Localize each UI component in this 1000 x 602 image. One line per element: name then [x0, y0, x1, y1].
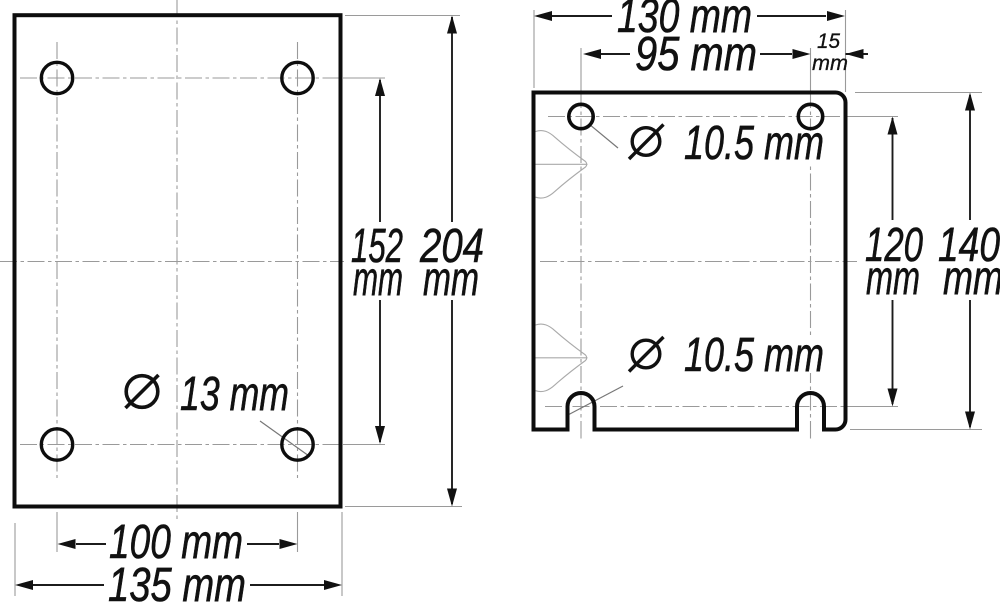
100mm right extension line	[297, 512, 299, 552]
svg-text:13 mm: 13 mm	[180, 368, 289, 421]
140mm dimension line segments	[969, 95, 971, 220]
135mm right extension line	[341, 512, 343, 596]
svg-text:mm: mm	[353, 253, 403, 306]
204mm bottom arrowhead	[447, 489, 457, 507]
svg-text:10.5 mm: 10.5 mm	[684, 329, 824, 382]
95mm left arrowhead	[583, 49, 601, 59]
left slot centerline extension below right plate	[580, 430, 582, 439]
95mm dimension line segments	[601, 53, 630, 55]
left plate hole bottom-left	[41, 429, 72, 460]
svg-text:mm: mm	[943, 252, 1000, 305]
204mm top arrowhead	[447, 16, 457, 34]
204mm bottom extension line	[345, 506, 462, 508]
100mm right arrowhead	[280, 539, 298, 549]
152mm dimension line segments	[379, 80, 381, 222]
right plate top holes horizontal centerline	[548, 116, 846, 118]
svg-text:95 mm: 95 mm	[635, 28, 757, 81]
left plate mid vertical centerline	[176, 0, 178, 519]
135mm left arrowhead	[15, 580, 33, 590]
120mm bottom extension	[850, 406, 898, 408]
152mm top extension	[345, 77, 385, 79]
130mm left arrowhead	[534, 11, 552, 21]
100mm dimension line segments	[76, 543, 106, 545]
left plate mid horizontal centerline	[0, 261, 390, 263]
left plate hole bottom-right	[282, 429, 313, 460]
135mm right arrowhead	[324, 580, 342, 590]
120mm bottom arrowhead	[888, 389, 898, 407]
svg-text:mm: mm	[423, 253, 479, 306]
white mask behind 152/204 text block	[344, 220, 504, 300]
leader line to bottom 10.5mm slot	[566, 386, 623, 416]
15mm dimension tail line	[846, 53, 869, 55]
leader line to top 10.5mm hole	[589, 124, 618, 148]
left plate right holes vertical centerline	[297, 42, 299, 478]
left hole centerline extension above right plate	[580, 48, 582, 91]
diameter symbol for bottom 10.5mm	[629, 337, 664, 372]
left plate top holes horizontal centerline	[20, 77, 345, 79]
right plate hole top-right	[798, 104, 822, 128]
white mask behind bottom 10.5mm text mm part	[760, 335, 834, 373]
extension portions of centerlines (solid thin)	[345, 48, 898, 445]
svg-text:10.5 mm: 10.5 mm	[684, 117, 824, 170]
centerline group	[0, 0, 857, 519]
140mm top arrowhead	[965, 93, 975, 111]
svg-text:135 mm: 135 mm	[108, 559, 246, 602]
white mask behind top 10.5mm text mm part	[760, 131, 834, 163]
right plate hole top-left	[569, 104, 593, 128]
left plate bottom holes horizontal centerline	[20, 444, 345, 446]
15mm left-pointing arrowhead	[846, 49, 864, 59]
100mm left extension line	[56, 512, 58, 552]
152mm top arrowhead	[375, 78, 385, 96]
right plate left hole/slot vertical centerline	[580, 91, 582, 430]
135mm dimension line segments	[33, 584, 104, 586]
204mm dimension line segments	[451, 17, 453, 222]
152mm bottom arrowhead	[375, 426, 385, 444]
formed tab thin outline lower	[536, 324, 588, 391]
152mm bottom extension	[345, 444, 385, 446]
140mm top extension line	[855, 92, 982, 94]
204mm top extension line	[345, 15, 460, 17]
right plate right hole/slot vertical centerline	[810, 91, 812, 430]
diameter symbol for top 10.5mm	[629, 125, 664, 160]
leader line to 13mm hole	[260, 421, 309, 456]
right slot centerline extension below right plate	[810, 430, 812, 439]
135mm left extension line	[14, 523, 16, 596]
left plate outline	[15, 15, 341, 506]
right plate outline with rounded right corners and two bottom slots	[534, 93, 846, 430]
130mm left extension line	[533, 10, 535, 88]
95mm right arrowhead	[793, 49, 811, 59]
130mm/15mm right extension line	[845, 10, 847, 92]
right hole centerline extension above right plate	[810, 48, 812, 91]
svg-text:15: 15	[817, 30, 840, 53]
120mm dimension line segments	[892, 118, 894, 220]
formed tab thin outline upper	[536, 131, 588, 198]
left plate hole top-left	[41, 62, 72, 93]
right plate mid horizontal centerline	[540, 261, 857, 263]
diameter symbol for 13mm	[126, 375, 159, 408]
left plate hole top-right	[282, 62, 313, 93]
140mm bottom extension line	[850, 429, 982, 431]
120mm top arrowhead	[888, 117, 898, 135]
140mm bottom arrowhead	[965, 412, 975, 430]
left plate left holes vertical centerline	[56, 42, 58, 478]
right plate slots horizontal centerline	[545, 406, 850, 408]
100mm left arrowhead	[58, 539, 76, 549]
120mm top extension	[846, 116, 898, 118]
130mm right arrowhead	[827, 11, 845, 21]
130mm dimension line segments	[552, 15, 612, 17]
svg-text:mm: mm	[812, 52, 848, 75]
svg-text:mm: mm	[866, 252, 920, 305]
